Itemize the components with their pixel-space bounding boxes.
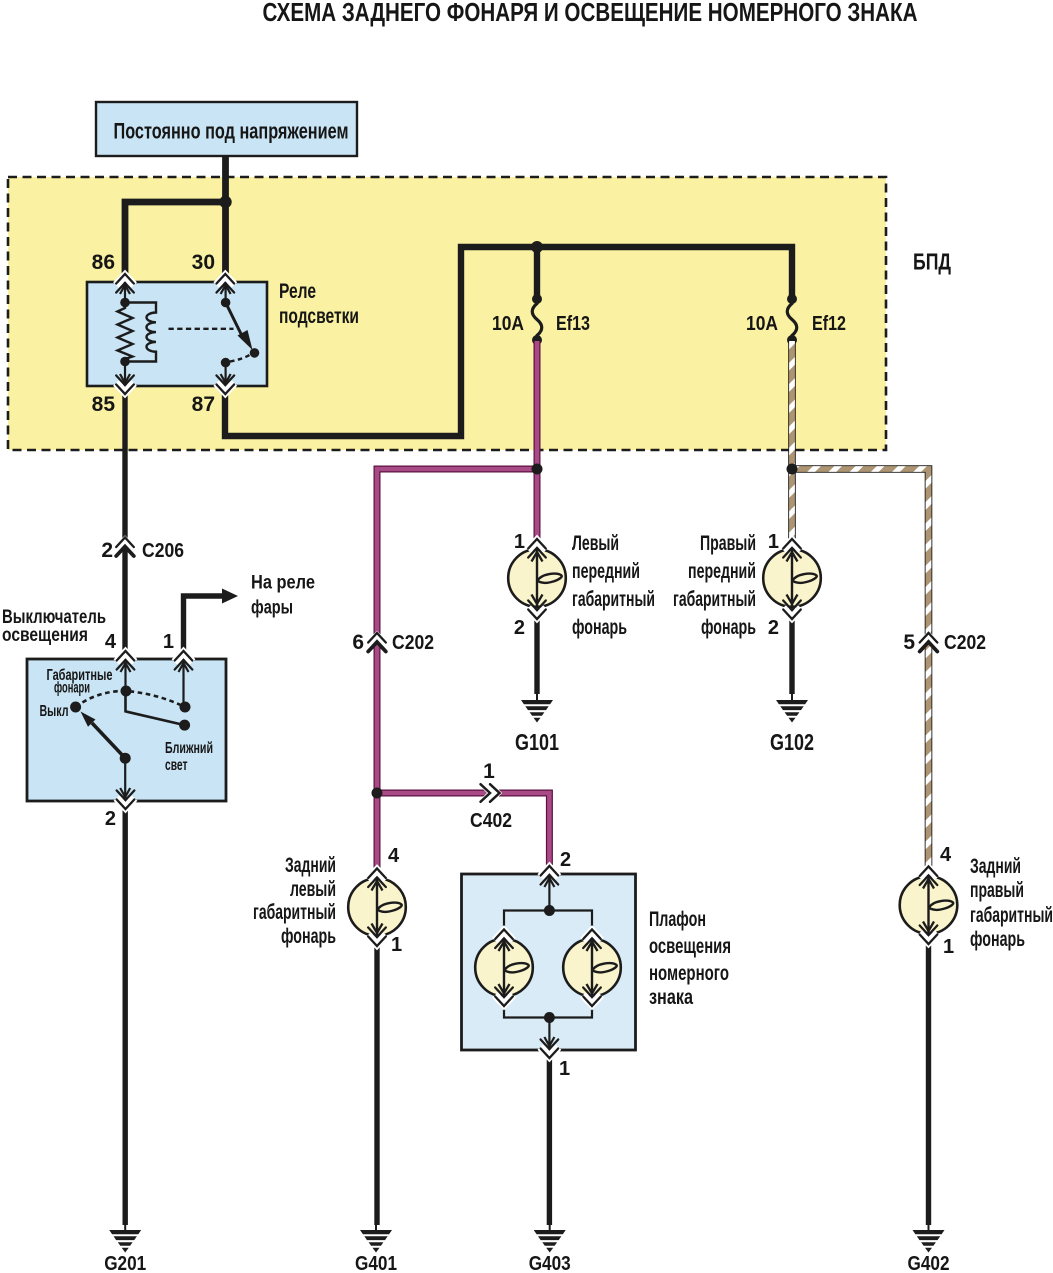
svg-text:фонарь: фонарь [701, 616, 756, 639]
lamp pin labels right front [768, 531, 779, 639]
relay pin chevron 86 [116, 274, 134, 293]
relay switch arm from pin 30 [226, 303, 253, 351]
svg-text:габаритный: габаритный [970, 904, 1053, 927]
wire tan: junction to right front lamp pin 1 [788, 469, 796, 551]
switch pin label 4 [105, 631, 117, 653]
connector C402 labels [470, 760, 512, 832]
svg-text:габаритный: габаритный [572, 588, 655, 611]
svg-text:2: 2 [514, 617, 525, 639]
wire: rear left lamp to ground G401 [374, 936, 379, 1225]
svg-text:5: 5 [903, 631, 915, 654]
plate unit top bus node [544, 905, 555, 916]
wire purple: junction left and down through C202 [377, 469, 540, 795]
svg-text:СХЕМА ЗАДНЕГО ФОНАРЯ И ОСВЕЩЕН: СХЕМА ЗАДНЕГО ФОНАРЯ И ОСВЕЩЕНИЕ НОМЕРНО… [263, 0, 918, 27]
svg-text:Реле: Реле [279, 280, 316, 303]
svg-text:30: 30 [192, 251, 215, 274]
svg-text:освещения: освещения [2, 625, 88, 646]
switch pin 4 internal lead [121, 661, 131, 691]
wire purple: Ef13 down to junction [534, 341, 541, 472]
lamp pin chevron 4 (rear right) [920, 867, 938, 886]
relay pin chevron 85 [116, 376, 134, 395]
label: license plate lamp unit [649, 908, 731, 1009]
wire: left front lamp to ground [534, 609, 539, 694]
svg-text:C206: C206 [142, 540, 184, 562]
svg-text:Левый: Левый [572, 532, 619, 555]
relay name label [279, 280, 359, 328]
plate unit pin label 1 [559, 1058, 570, 1080]
svg-text:2: 2 [768, 617, 779, 639]
svg-text:освещения: освещения [649, 935, 731, 958]
light switch body [27, 659, 226, 801]
switch pin label 1 [163, 631, 174, 653]
svg-text:4: 4 [105, 631, 117, 653]
title caption [263, 0, 918, 27]
plate unit top bus [504, 911, 592, 940]
relay coil node bottom [120, 357, 130, 367]
wire: bus drop to fuse Ef13 [534, 247, 540, 299]
wire: relay pin 85 down through C206 to switch pin 4 [122, 386, 127, 659]
switch node pin1 [180, 702, 191, 713]
svg-text:Ef13: Ef13 [556, 313, 590, 335]
connector C206 [116, 538, 134, 557]
plate unit bottom bus [504, 996, 592, 1018]
svg-text:4: 4 [940, 844, 952, 866]
svg-text:4: 4 [388, 845, 400, 867]
fuse Ef12 name label [812, 313, 846, 335]
svg-text:Выкл: Выкл [40, 703, 69, 720]
switch inner label: low beam [165, 740, 213, 774]
relay switch contact node [250, 348, 260, 358]
switch node Off [70, 702, 81, 713]
wire: power box down to relay pin 30 [222, 156, 229, 282]
svg-text:1: 1 [768, 531, 779, 553]
plate lamp left pin chevrons [495, 930, 513, 1007]
plate unit pin 1 internal lead [544, 1018, 554, 1049]
svg-text:2: 2 [560, 849, 571, 871]
svg-text:фары: фары [251, 598, 293, 619]
lamp pin chevron 1 (rear left) [368, 928, 386, 947]
plate unit pin chevron 1 [540, 1040, 558, 1059]
ground G101 [515, 693, 559, 755]
lamp pin chevron 1 (rear right) [920, 926, 938, 945]
relay node pin87 [221, 358, 231, 368]
svg-text:фонарь: фонарь [970, 928, 1025, 951]
relay coil node top [120, 298, 130, 308]
plate unit pin chevron 2 [540, 866, 558, 885]
plate lamp right [563, 939, 621, 997]
lamp: left front position light [508, 549, 566, 607]
svg-text:87: 87 [192, 393, 215, 416]
ground G402 [908, 1223, 950, 1273]
plate lamp right pin chevrons [583, 930, 601, 1007]
svg-text:Ef12: Ef12 [812, 313, 846, 335]
switch pin 1 internal lead [179, 661, 189, 707]
lamp pin labels left front [514, 531, 525, 639]
lamp pin chevron 4 (rear left) [368, 869, 386, 888]
svg-text:БПД: БПД [913, 249, 951, 275]
fuse Ef13 rating label [492, 313, 524, 335]
ground G102 [770, 693, 814, 755]
switch pin chevron 1 [175, 651, 193, 670]
relay pin label 85 [92, 393, 116, 416]
relay dashed link 87 to contact [230, 355, 251, 362]
svg-text:G401: G401 [355, 1253, 397, 1273]
lamp: right front position light [763, 549, 821, 607]
relay pin label 87 [192, 393, 215, 416]
connector C402 inline [481, 784, 500, 802]
svg-text:C402: C402 [470, 810, 512, 832]
svg-text:габаритный: габаритный [673, 588, 756, 611]
relay coil [125, 303, 156, 362]
lamp: rear left position light [348, 878, 406, 936]
svg-text:1: 1 [391, 934, 402, 956]
svg-text:Задний: Задний [970, 855, 1021, 878]
relay pin 30 internal lead [221, 284, 231, 303]
svg-text:Правый: Правый [700, 532, 756, 555]
label: to headlight relay [251, 573, 315, 619]
svg-text:Задний: Задний [285, 854, 336, 877]
svg-text:левый: левый [290, 878, 336, 901]
wire: relay pin 87 to fuse supply bus [225, 247, 792, 436]
switch dashed selector path [76, 691, 185, 707]
label: rear left position lamp [253, 854, 336, 948]
wire purple: junction to left front lamp pin 1 [534, 469, 541, 551]
fuse box BPD yellow dashed region [8, 177, 886, 450]
svg-text:Плафон: Плафон [649, 908, 706, 931]
svg-text:10A: 10A [746, 313, 778, 335]
net label BPD [913, 249, 951, 275]
lamp pin chevron 1 (right front) [783, 539, 801, 558]
svg-text:86: 86 [92, 251, 115, 274]
lamp pin chevron 2 (right front) [783, 601, 801, 620]
wire purple: branch to C402 and plate lamp [377, 793, 549, 876]
node purple junction [532, 464, 543, 475]
switch link pin4 to lower contact [126, 691, 185, 725]
svg-text:85: 85 [92, 393, 116, 416]
plate unit pin label 2 [560, 849, 571, 871]
wire tan: junction right and down to rear right lamp [790, 469, 929, 879]
wire: right front lamp to ground [789, 609, 794, 694]
license plate lamp unit body [462, 874, 636, 1050]
label: left front position lamp [572, 532, 655, 639]
node tan junction [787, 464, 798, 475]
fuse Ef13 10A [532, 294, 542, 345]
relay pin label 86 [92, 251, 115, 274]
svg-text:Ближний: Ближний [165, 740, 213, 757]
svg-text:1: 1 [514, 531, 525, 553]
svg-text:фонарь: фонарь [281, 925, 336, 948]
ground G403 [529, 1223, 571, 1273]
lamp: rear right position light [900, 876, 958, 934]
wire: switch pin 2 down to ground G201 [122, 801, 127, 1225]
connector C206 labels [101, 539, 184, 562]
plate lamp left [475, 939, 533, 997]
svg-text:габаритный: габаритный [253, 901, 336, 924]
fuse Ef12 10A [787, 294, 797, 345]
svg-text:1: 1 [483, 760, 495, 783]
svg-text:1: 1 [559, 1058, 570, 1080]
svg-text:C202: C202 [944, 632, 986, 654]
svg-text:На реле: На реле [251, 573, 315, 594]
relay pin 87 internal lead [221, 363, 231, 384]
svg-text:6: 6 [352, 631, 364, 654]
plate unit bottom bus node [544, 1012, 555, 1023]
relay node pin30 [221, 298, 231, 308]
relay actuation dashed line [169, 328, 234, 330]
node purple branch junction [372, 788, 383, 799]
connector C202 pin 6 labels [352, 631, 434, 654]
switch node pivot [120, 753, 131, 764]
svg-text:фонарь: фонарь [572, 616, 627, 639]
svg-text:правый: правый [970, 879, 1024, 902]
node: bus junction above Ef13 [531, 241, 543, 253]
wire tan: Ef12 down to junction [788, 341, 796, 472]
lamp pin chevron 1 (left front) [528, 539, 546, 558]
label: rear right position lamp [970, 855, 1053, 951]
fuse Ef12 rating label [746, 313, 778, 335]
svg-text:G102: G102 [770, 729, 814, 755]
svg-text:C202: C202 [392, 632, 434, 654]
svg-text:подсветки: подсветки [279, 305, 359, 328]
svg-text:передний: передний [572, 560, 640, 583]
switch pin chevron 4 [117, 651, 135, 670]
lamp pin labels rear right [940, 844, 954, 958]
wire: switch pin 1 up to relay-headlight arrow [184, 589, 239, 660]
power feed box: constantly energized [96, 102, 357, 156]
relay pin label 30 [192, 251, 215, 274]
svg-text:фонари: фонари [54, 680, 90, 697]
switch pin chevron 2 [117, 791, 135, 810]
svg-text:Постоянно под напряжением: Постоянно под напряжением [114, 119, 349, 144]
svg-text:2: 2 [105, 808, 116, 830]
relay pin chevron 30 [216, 274, 234, 293]
connector C202 pin 6 [368, 633, 386, 652]
svg-text:знака: знака [649, 986, 693, 1009]
fuse Ef13 name label [556, 313, 590, 335]
svg-text:1: 1 [943, 936, 954, 958]
relay body: Rele podsvetki [87, 282, 267, 386]
wire purple: to rear left lamp pin 4 [374, 793, 381, 881]
switch pin label 2 [105, 808, 116, 830]
ground G401 [355, 1223, 397, 1273]
switch name label [2, 607, 106, 646]
switch inner label: off [40, 703, 69, 720]
ground G201 [104, 1223, 146, 1273]
switch node low-beam contact [179, 720, 190, 731]
label: right front position lamp [673, 532, 756, 639]
svg-text:G101: G101 [515, 729, 559, 755]
lamp pin labels rear left [388, 845, 402, 956]
wire: plate unit pin 1 to ground G403 [547, 1050, 552, 1225]
svg-text:1: 1 [163, 631, 174, 653]
node: power junction [219, 196, 231, 208]
relay pin 85 internal lead [120, 362, 130, 385]
connector C202 pin 5 labels [903, 631, 986, 654]
switch arm with arrow to Off [81, 712, 126, 759]
switch node pin4 [121, 686, 132, 697]
wire: junction left then down to relay pin 86 [125, 202, 229, 282]
wire: rear right lamp to ground G402 [926, 934, 931, 1225]
relay pin 86 internal lead [120, 284, 130, 303]
svg-text:10A: 10A [492, 313, 524, 335]
switch pivot lead to pin 2 [120, 758, 130, 799]
relay pin chevron 87 [216, 376, 234, 395]
plate unit pin 2 internal lead [544, 876, 554, 911]
svg-text:передний: передний [688, 560, 756, 583]
switch inner label: position lamps [47, 667, 113, 697]
connector C202 pin 5 [920, 633, 938, 652]
svg-text:свет: свет [165, 757, 188, 774]
lamp pin chevron 2 (left front) [528, 601, 546, 620]
svg-text:G402: G402 [908, 1253, 950, 1273]
svg-text:G403: G403 [529, 1253, 571, 1273]
relay resistor (parallel) [118, 303, 133, 362]
svg-text:2: 2 [101, 539, 113, 562]
svg-text:G201: G201 [104, 1253, 146, 1273]
svg-text:номерного: номерного [649, 962, 729, 985]
